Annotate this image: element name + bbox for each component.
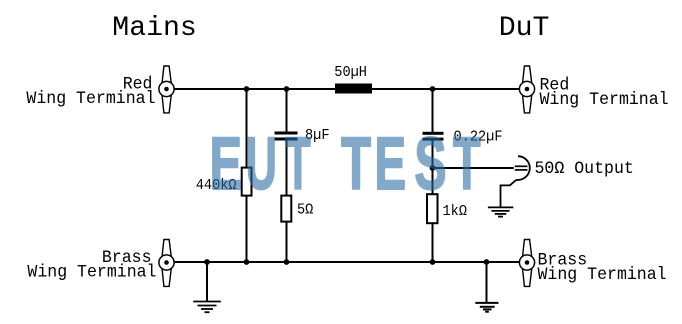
junction bottom bus / 1k branch xyxy=(430,259,436,265)
wire output tap xyxy=(433,167,514,169)
terminal dut red (wing terminal) xyxy=(519,66,534,113)
junction bottom bus / 5ohm branch xyxy=(284,259,290,265)
junction bottom bus / left ground xyxy=(204,259,210,265)
ground dut side xyxy=(475,303,498,312)
wire branch 440k (top bus to bottom bus) xyxy=(246,89,248,263)
svg-text:E: E xyxy=(210,123,242,206)
svg-text:S: S xyxy=(414,122,446,205)
junction top bus / 8uF branch xyxy=(284,86,290,92)
svg-text:Wing Terminal: Wing Terminal xyxy=(538,265,667,285)
wire branch 8uF/5ohm xyxy=(286,89,288,263)
wire branch 0.22uF/1k xyxy=(432,89,434,263)
terminal mains red (wing terminal) xyxy=(159,66,174,113)
connector J1 50ohm output xyxy=(515,156,530,180)
junction top bus / 0.22uF branch xyxy=(430,86,436,92)
svg-text:Wing Terminal: Wing Terminal xyxy=(27,263,156,283)
wire bottom bus xyxy=(174,261,520,263)
wire bottom-left ground tap xyxy=(206,262,208,301)
wire top bus xyxy=(174,88,520,90)
junction output tap xyxy=(430,165,436,171)
terminal mains brass (wing terminal) xyxy=(159,240,174,287)
junction top bus / 440k branch xyxy=(244,86,250,92)
svg-text:U: U xyxy=(246,122,277,205)
svg-text:DuT: DuT xyxy=(499,13,550,44)
wire connector shield to ground xyxy=(501,180,517,207)
resistor R3 1kOhm xyxy=(427,194,438,223)
capacitor C1 8uF xyxy=(275,132,298,141)
svg-text:T: T xyxy=(285,122,311,205)
svg-text:T: T xyxy=(453,122,481,204)
terminal dut brass (wing terminal) xyxy=(519,240,534,287)
wire bottom-right ground tap xyxy=(486,262,488,302)
svg-text:50Ω Output: 50Ω Output xyxy=(535,159,634,179)
svg-text:1kΩ: 1kΩ xyxy=(443,204,468,221)
svg-text:E: E xyxy=(375,123,407,205)
watermark EUT TEST xyxy=(210,122,481,206)
svg-text:50µH: 50µH xyxy=(334,64,367,81)
inductor L1 50uH xyxy=(335,84,372,94)
capacitor C2 0.22uF xyxy=(423,132,444,141)
svg-text:Wing Terminal: Wing Terminal xyxy=(26,89,155,109)
resistor R2 5Ohm xyxy=(281,196,291,222)
svg-text:T: T xyxy=(341,123,371,206)
ground output xyxy=(488,207,513,216)
ground mains side xyxy=(193,302,221,313)
resistor R1 440kOhm xyxy=(242,168,252,196)
svg-text:Mains: Mains xyxy=(112,13,197,44)
junction bottom bus / right ground xyxy=(484,259,490,265)
junction bottom bus / 440k branch xyxy=(244,259,250,265)
svg-text:Wing Terminal: Wing Terminal xyxy=(540,90,669,110)
